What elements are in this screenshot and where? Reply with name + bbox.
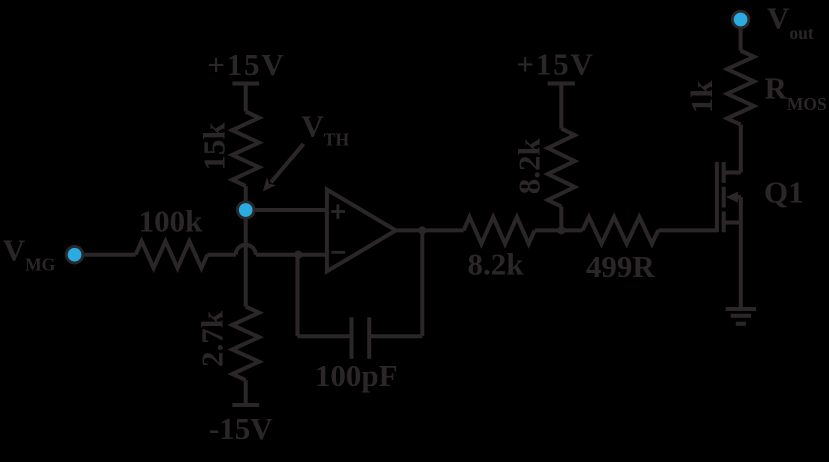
transistor Q1 body arrow — [726, 192, 741, 203]
wire hop to op-amp inverting input — [256, 253, 327, 257]
resistor 8.2k (series) — [464, 217, 535, 244]
wire op-amp output — [396, 228, 464, 232]
svg-text:RMOS: RMOS — [765, 71, 827, 115]
resistor 15k — [232, 112, 259, 186]
op-amp plus sign — [331, 204, 345, 219]
wire 8.2k to node — [535, 228, 583, 232]
transistor Q1 source stub — [724, 221, 741, 225]
wire 499R to gate of Q1 — [658, 228, 717, 232]
svg-text:Vout: Vout — [767, 0, 814, 43]
resistor 100k — [136, 241, 208, 268]
svg-text:499R: 499R — [586, 249, 656, 284]
svg-text:1k: 1k — [684, 80, 719, 114]
svg-text:+15V: +15V — [516, 47, 594, 82]
svg-text:+15V: +15V — [207, 47, 285, 82]
svg-text:8.2k: 8.2k — [512, 138, 547, 195]
wire drain to R_MOS — [739, 125, 743, 173]
svg-text:VMG: VMG — [3, 232, 56, 274]
ground — [726, 309, 757, 324]
wire supply to R 8.2k pullup — [559, 84, 563, 129]
wire feedback down from inverting input — [296, 255, 300, 337]
power supply -15V bar — [232, 403, 259, 407]
resistor 8.2k (pull-up) — [548, 129, 575, 207]
terminal VMG — [66, 246, 83, 263]
wire 100k to hop — [207, 253, 235, 257]
svg-text:100pF: 100pF — [315, 358, 398, 393]
svg-text:2.7k: 2.7k — [194, 310, 229, 367]
junction dot at 8.2k/499R node — [557, 226, 565, 234]
wire 15k to node VTH — [244, 186, 248, 207]
junction dot at inverting input — [294, 251, 302, 259]
svg-text:-15V: -15V — [209, 411, 273, 446]
wire capacitor to output riser — [369, 334, 422, 338]
arrow VTH pointer — [263, 144, 304, 192]
capacitor 100pF — [352, 317, 370, 359]
svg-text:Q1: Q1 — [764, 175, 804, 210]
transistor Q1 gate bar — [715, 162, 719, 232]
wire riser up to output node — [420, 230, 424, 336]
node VTH terminal dot — [237, 202, 254, 219]
svg-text:8.2k: 8.2k — [468, 247, 525, 282]
svg-text:15k: 15k — [197, 122, 232, 171]
terminal Vout — [732, 11, 749, 28]
wire 2.7k to -15V — [244, 380, 248, 405]
wire supply to R 15k — [244, 84, 248, 112]
svg-text:VTH: VTH — [301, 109, 349, 150]
wire node VTH to op-amp non-inverting input — [246, 208, 327, 212]
resistor 499R — [583, 217, 659, 244]
power supply +15V (right) bar — [548, 82, 575, 86]
wire VMG terminal to 100k — [83, 253, 136, 257]
wire source down to ground — [739, 197, 743, 309]
wire node VTH down to hop — [244, 213, 248, 307]
power supply +15V (left) bar — [232, 82, 259, 86]
junction dot at op-amp output — [418, 226, 426, 234]
resistor R_MOS 1k — [727, 51, 754, 125]
op-amp U1 — [327, 190, 396, 272]
transistor Q1 drain stub — [724, 171, 741, 175]
wire 8.2k pullup to node — [559, 207, 563, 231]
wire Vout terminal to R_MOS — [739, 27, 743, 51]
resistor 2.7k — [232, 307, 259, 381]
svg-text:100k: 100k — [139, 204, 204, 239]
op-amp minus sign — [331, 251, 345, 254]
wire hop over vertical wire — [236, 245, 256, 255]
transistor Q1 channel segments — [722, 162, 726, 232]
wire feedback to capacitor — [298, 334, 352, 338]
